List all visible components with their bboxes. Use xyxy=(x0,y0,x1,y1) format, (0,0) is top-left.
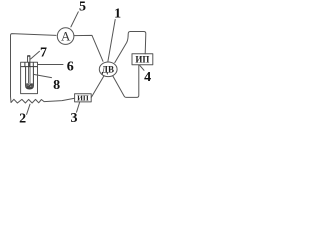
svg-text:ИП: ИП xyxy=(77,93,89,102)
svg-text:5: 5 xyxy=(79,0,86,15)
svg-text:A: A xyxy=(61,29,71,44)
svg-text:ДВ: ДВ xyxy=(102,64,114,74)
svg-text:2: 2 xyxy=(19,111,26,124)
svg-text:8: 8 xyxy=(53,78,60,93)
svg-text:ИП: ИП xyxy=(135,54,149,64)
svg-text:4: 4 xyxy=(144,70,151,85)
svg-text:6: 6 xyxy=(67,60,74,75)
svg-text:3: 3 xyxy=(71,111,78,124)
svg-text:7: 7 xyxy=(40,46,47,61)
svg-text:1: 1 xyxy=(114,7,121,22)
